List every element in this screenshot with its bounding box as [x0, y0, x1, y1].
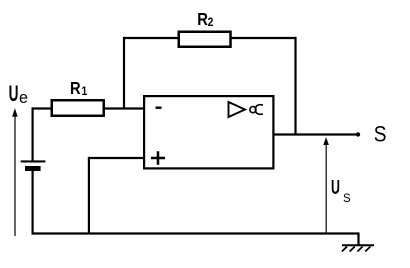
- svg-text:U: U: [9, 80, 19, 105]
- svg-text:S: S: [374, 122, 387, 147]
- svg-text:R: R: [70, 79, 81, 99]
- svg-text:e: e: [19, 88, 28, 107]
- svg-text:U: U: [331, 176, 340, 199]
- svg-text:1: 1: [82, 85, 88, 98]
- svg-text:R: R: [197, 10, 208, 30]
- svg-text:2: 2: [208, 17, 214, 30]
- svg-text:S: S: [343, 193, 351, 205]
